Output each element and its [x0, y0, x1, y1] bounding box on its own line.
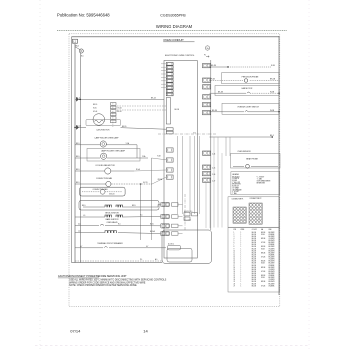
svg-text:BR BROWN: BR BROWN — [257, 182, 265, 184]
svg-text:Publication No: 5995446648: Publication No: 5995446648 — [57, 12, 110, 17]
svg-text:BK-5B: BK-5B — [218, 91, 224, 93]
svg-text:15: 15 — [234, 261, 236, 263]
svg-text:BK-5B/W: BK-5B/W — [269, 267, 276, 269]
svg-text:BK-5B: BK-5B — [252, 244, 256, 246]
svg-text:26: 26 — [234, 283, 236, 285]
svg-text:GY-5B: GY-5B — [261, 271, 265, 273]
svg-text:USE ALL WIRE RATED 105°C MINIM: USE ALL WIRE RATED 105°C MINIMUM TO DISC… — [69, 278, 166, 281]
svg-text:BK-5B: BK-5B — [252, 240, 256, 242]
svg-text:LEGEND: LEGEND — [232, 174, 240, 176]
svg-text:BK-5B/W: BK-5B/W — [269, 242, 276, 244]
svg-text:W-5B: W-5B — [261, 277, 265, 279]
svg-text:BU-5: BU-5 — [150, 224, 154, 226]
svg-text:BK-5B: BK-5B — [175, 109, 179, 111]
svg-text:BK-55: BK-55 — [122, 126, 127, 128]
svg-text:GY-5B/W: GY-5B/W — [269, 269, 276, 271]
svg-text:19: 19 — [234, 269, 236, 271]
svg-text:BR-5B: BR-5B — [261, 238, 265, 240]
svg-text:L-5: L-5 — [78, 231, 80, 233]
svg-text:BROIL IGNITOR: BROIL IGNITOR — [105, 213, 119, 215]
svg-text:W-5B/BK: W-5B/BK — [269, 275, 275, 277]
svg-text:CONNECTOR P2: CONNECTOR P2 — [250, 198, 262, 200]
svg-text:XXX-XX: XXX-XX — [109, 194, 115, 196]
svg-text:4-7: 4-7 — [146, 246, 148, 248]
svg-text:WIRE: WIRE — [241, 229, 245, 231]
svg-text:L-5: L-5 — [83, 215, 85, 217]
svg-text:GY-5B: GY-5B — [261, 257, 265, 259]
svg-text:BR-5B: BR-5B — [261, 252, 265, 254]
svg-text:R-5: R-5 — [118, 224, 121, 226]
svg-text:BK-5B: BK-5B — [261, 275, 265, 277]
svg-text:WIRING DIAGRAM: WIRING DIAGRAM — [156, 24, 193, 29]
svg-text:COOLING FAN MOTOR: COOLING FAN MOTOR — [95, 164, 115, 167]
svg-text:BK-5: BK-5 — [82, 205, 86, 207]
svg-text:20: 20 — [234, 271, 236, 273]
svg-text:BK-5B: BK-5B — [252, 242, 256, 244]
svg-text:BK-5B: BK-5B — [252, 232, 256, 234]
svg-text:24: 24 — [234, 279, 236, 281]
svg-text:Y YELLOW: Y YELLOW — [232, 182, 240, 184]
svg-text:BK-5: BK-5 — [76, 143, 80, 145]
svg-text:4-7: 4-7 — [80, 246, 82, 248]
svg-text:14: 14 — [234, 259, 236, 261]
svg-text:07/14: 07/14 — [70, 329, 81, 334]
svg-text:BK-5B/W: BK-5B/W — [269, 236, 276, 238]
svg-text:17: 17 — [234, 265, 236, 267]
svg-text:W-5B/BK: W-5B/BK — [269, 265, 275, 267]
svg-text:GY-44: GY-44 — [93, 111, 97, 113]
svg-text:BK-5B: BK-5B — [252, 234, 256, 236]
svg-text:CONNECTOR P1: CONNECTOR P1 — [232, 199, 244, 201]
svg-text:14: 14 — [143, 329, 148, 334]
svg-text:OVEN SENSOR: OVEN SENSOR — [237, 151, 251, 153]
svg-text:22: 22 — [234, 275, 236, 277]
svg-text:W-5B/BK: W-5B/BK — [269, 254, 275, 256]
svg-text:4-5: 4-5 — [78, 224, 80, 226]
svg-text:LAMP HOLDER OVEN LAMP: LAMP HOLDER OVEN LAMP — [95, 137, 120, 140]
svg-text:BK-5B: BK-5B — [252, 252, 256, 254]
svg-text:V-5: V-5 — [140, 215, 143, 217]
svg-text:BR-5B: BR-5B — [270, 79, 276, 81]
svg-text:BR BROWN: BR BROWN — [232, 184, 240, 186]
svg-text:WIRING ORDER FOR CODE SERVICE: WIRING ORDER FOR CODE SERVICE AND ORIGIN… — [69, 281, 146, 284]
svg-text:BK-5B: BK-5B — [252, 283, 256, 285]
svg-text:GY-5B/W: GY-5B/W — [269, 279, 276, 281]
svg-text:C-37: C-37 — [212, 181, 215, 183]
svg-text:BK-5B: BK-5B — [252, 248, 256, 250]
svg-text:PRECISION PROBE: PRECISION PROBE — [242, 76, 259, 78]
svg-text:BK-5B: BK-5B — [252, 246, 256, 248]
svg-text:10: 10 — [234, 250, 236, 252]
svg-text:GY-5B/W: GY-5B/W — [269, 248, 276, 250]
svg-text:COLOR: COLOR — [252, 229, 257, 231]
svg-text:BK-5B: BK-5B — [252, 271, 256, 273]
svg-text:BK-54: BK-54 — [76, 126, 81, 128]
svg-text:NOTE: CHECK PROPER OPERATION A: NOTE: CHECK PROPER OPERATION AFTER SERVI… — [69, 284, 137, 287]
svg-text:25: 25 — [234, 281, 236, 283]
svg-text:BK-5B: BK-5B — [252, 236, 256, 238]
svg-text:BK-55: BK-55 — [93, 104, 97, 106]
svg-text:GY-5B: GY-5B — [261, 242, 265, 244]
svg-text:BK-44: BK-44 — [117, 111, 121, 113]
svg-text:BR-5B/W: BR-5B/W — [269, 261, 276, 263]
svg-text:11: 11 — [234, 252, 236, 254]
svg-text:W-5B: W-5B — [261, 248, 265, 250]
svg-text:BR-5B: BR-5B — [261, 267, 265, 269]
svg-text:CGDS3065PFB: CGDS3065PFB — [160, 13, 186, 17]
svg-text:BK-5B: BK-5B — [252, 261, 256, 263]
svg-text:BK-5B: BK-5B — [252, 279, 256, 281]
svg-text:LATCH MOTOR: LATCH MOTOR — [97, 128, 111, 131]
svg-text:BK-54: BK-54 — [151, 97, 156, 99]
svg-text:BK-5: BK-5 — [76, 97, 80, 99]
svg-text:BR-5B/W: BR-5B/W — [269, 271, 276, 273]
svg-text:P1: P1 — [204, 55, 206, 57]
svg-text:BK-5B: BK-5B — [252, 259, 256, 261]
svg-text:BK-5B: BK-5B — [261, 246, 265, 248]
svg-text:BK-5B: BK-5B — [252, 265, 256, 267]
svg-text:BR-5: BR-5 — [132, 205, 136, 207]
svg-text:BK-5B/W: BK-5B/W — [269, 283, 276, 285]
svg-text:BR-5B/W: BR-5B/W — [269, 240, 276, 242]
svg-text:BR-5B/W: BR-5B/W — [269, 250, 276, 252]
svg-text:N-5: N-5 — [81, 55, 84, 57]
svg-text:W-5B/BK: W-5B/BK — [269, 234, 275, 236]
svg-text:BK-5B: BK-5B — [252, 285, 256, 287]
svg-text:16: 16 — [234, 263, 236, 265]
svg-text:BK-5B: BK-5B — [252, 254, 256, 256]
svg-text:BK-5B/W: BK-5B/W — [269, 277, 276, 279]
svg-text:12: 12 — [234, 254, 236, 256]
svg-text:P-1: P-1 — [140, 259, 143, 261]
svg-text:BK-5B: BK-5B — [261, 232, 265, 234]
svg-text:BR-5B/W: BR-5B/W — [269, 281, 276, 283]
svg-text:W-5B/BK: W-5B/BK — [269, 285, 275, 287]
svg-text:OVEN VALVE: OVEN VALVE — [106, 221, 118, 224]
svg-text:LAMP HOLDER OVEN LAMP: LAMP HOLDER OVEN LAMP — [101, 150, 126, 153]
svg-text:OVEN/DR LIGHT SWITCH: OVEN/DR LIGHT SWITCH — [237, 107, 259, 109]
svg-text:W-5B: W-5B — [261, 263, 265, 265]
svg-text:BK-5B: BK-5B — [252, 238, 256, 240]
svg-text:W-5B/BK: W-5B/BK — [269, 244, 275, 246]
svg-text:BK-5B/W: BK-5B/W — [269, 232, 276, 234]
svg-text:V VIOLET: V VIOLET — [232, 191, 239, 193]
svg-text:FAN MOTOR: FAN MOTOR — [242, 87, 253, 90]
svg-text:BK-5B: BK-5B — [252, 281, 256, 283]
svg-text:BK-5B: BK-5B — [261, 261, 265, 263]
svg-text:Y-5B: Y-5B — [157, 156, 160, 158]
svg-text:BK-5: BK-5 — [76, 169, 80, 171]
svg-text:13: 13 — [234, 257, 236, 259]
svg-text:BK-5B/W: BK-5B/W — [269, 257, 276, 259]
svg-text:21: 21 — [234, 273, 236, 275]
svg-text:BR-5B: BR-5B — [261, 281, 265, 283]
svg-text:BK-5: BK-5 — [75, 45, 79, 47]
svg-text:USE: USE — [269, 229, 272, 231]
svg-text:BK-5: BK-5 — [76, 156, 80, 158]
svg-text:W-55: W-55 — [93, 107, 97, 109]
svg-text:C-36: C-36 — [212, 174, 215, 176]
svg-text:OVEN CONDUIT: OVEN CONDUIT — [163, 38, 184, 42]
svg-text:THERMAL CIRCUIT BREAKER: THERMAL CIRCUIT BREAKER — [97, 242, 123, 245]
svg-text:BK-5B/W: BK-5B/W — [269, 246, 276, 248]
svg-text:BK-5B/W: BK-5B/W — [269, 252, 276, 254]
svg-text:BK-5B: BK-5B — [252, 275, 256, 277]
svg-text:GY-44: GY-44 — [117, 108, 121, 110]
svg-text:C-35: C-35 — [212, 168, 215, 170]
svg-text:BK-5B/W: BK-5B/W — [269, 263, 276, 265]
svg-text:GY-5B/W: GY-5B/W — [269, 259, 276, 261]
svg-text:BK-5B: BK-5B — [252, 269, 256, 271]
svg-text:27: 27 — [234, 285, 236, 287]
svg-text:MEAT PROBE: MEAT PROBE — [246, 157, 258, 160]
svg-text:BK-5B: BK-5B — [252, 257, 256, 259]
svg-text:BK-5B: BK-5B — [211, 65, 217, 67]
svg-text:BK-5B: BK-5B — [252, 277, 256, 279]
svg-text:BK-5B/W: BK-5B/W — [269, 273, 276, 275]
svg-text:BK-5B: BK-5B — [212, 110, 218, 112]
svg-text:ELECTRONIC OVEN CONTROL: ELECTRONIC OVEN CONTROL — [165, 55, 195, 57]
svg-text:GY-5B: GY-5B — [261, 285, 265, 287]
svg-text:PIN: PIN — [234, 229, 236, 231]
svg-text:GY-70: GY-70 — [143, 182, 148, 184]
svg-text:BK-5: BK-5 — [76, 182, 80, 184]
svg-text:P-1: P-1 — [193, 132, 196, 134]
svg-text:BAKE IGNITOR: BAKE IGNITOR — [106, 218, 119, 221]
svg-text:BU BLUE: BU BLUE — [232, 186, 238, 188]
svg-text:BK-5B: BK-5B — [252, 250, 256, 252]
svg-text:BK-5B: BK-5B — [252, 267, 256, 269]
svg-text:W-5B: W-5B — [261, 234, 265, 236]
svg-text:CONVECTION FAN: CONVECTION FAN — [96, 177, 113, 180]
svg-text:GY-5B/W: GY-5B/W — [269, 238, 276, 240]
svg-text:W WHITE: W WHITE — [232, 178, 239, 180]
svg-text:BK-5B: BK-5B — [252, 273, 256, 275]
svg-text:BK-5B: BK-5B — [252, 263, 256, 265]
svg-text:V - VIOLET: V - VIOLET — [257, 176, 265, 178]
svg-text:C-34: C-34 — [212, 154, 215, 156]
svg-text:BK/W-5 W-5: BK/W-5 W-5 — [184, 211, 192, 213]
svg-text:23: 23 — [234, 277, 236, 279]
svg-text:18: 18 — [234, 267, 236, 269]
